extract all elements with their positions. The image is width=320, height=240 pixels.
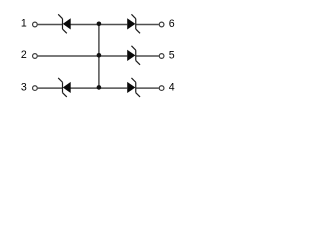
wire D3 anode to D6 anode [71,87,128,89]
wire pin3 to D3 cathode [38,87,63,89]
terminal pin 4 [159,86,164,91]
svg-text:2: 2 [21,49,27,61]
terminal pin 2 [33,54,38,59]
node junction row 1 [97,22,102,27]
svg-text:5: 5 [169,49,175,61]
terminal pin 5 [159,54,164,59]
wire pin1 to D1 cathode [38,24,63,26]
terminal pin 1 [33,22,38,27]
terminal pin 3 [33,86,38,91]
wire common rail [98,25,100,89]
wire D4 cathode to pin 6 [136,24,159,26]
svg-text:1: 1 [21,18,27,30]
zener diode D4 [127,14,140,33]
svg-text:3: 3 [21,81,27,93]
wire D6 cathode to pin 4 [136,87,159,89]
terminal pin 6 [159,22,164,27]
svg-text:6: 6 [169,18,175,30]
wire pin2 to D5 anode [38,55,128,57]
wire D1 anode to D4 anode [71,24,128,26]
svg-text:4: 4 [169,82,175,94]
node junction row 3 [97,85,102,90]
zener diode D3 [58,78,70,97]
zener diode D1 [58,14,70,33]
node junction row 2 [97,53,102,58]
zener diode D5 [127,46,140,65]
zener diode D6 [127,78,140,97]
wire D5 cathode to pin 5 [136,55,159,57]
